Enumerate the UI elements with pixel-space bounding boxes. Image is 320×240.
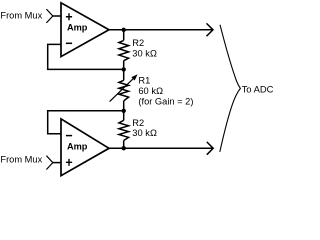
svg-text:30 kΩ: 30 kΩ (132, 128, 157, 138)
svg-text:Amp: Amp (67, 142, 88, 152)
svg-text:R2: R2 (132, 118, 144, 128)
svg-text:Amp: Amp (67, 23, 88, 33)
svg-text:To ADC: To ADC (242, 84, 274, 95)
svg-text:60 kΩ: 60 kΩ (138, 86, 163, 96)
svg-text:30 kΩ: 30 kΩ (132, 49, 157, 59)
svg-text:R2: R2 (132, 38, 144, 48)
svg-text:From Mux: From Mux (0, 154, 42, 164)
svg-text:(for Gain = 2): (for Gain = 2) (138, 96, 193, 106)
svg-text:R1: R1 (138, 76, 150, 86)
svg-text:From Mux: From Mux (0, 11, 42, 21)
